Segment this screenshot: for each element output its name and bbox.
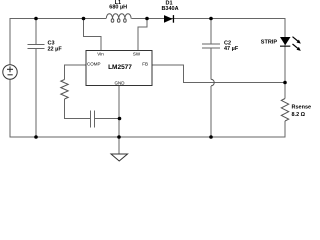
svg-text:47 µF: 47 µF bbox=[224, 46, 239, 52]
svg-text:8.2 Ω: 8.2 Ω bbox=[292, 112, 306, 118]
svg-text:STRIP: STRIP bbox=[261, 40, 278, 46]
svg-text:Rsense: Rsense bbox=[292, 105, 312, 111]
svg-text:LM2577: LM2577 bbox=[108, 64, 132, 71]
svg-text:Vin: Vin bbox=[97, 51, 104, 56]
svg-text:680 µH: 680 µH bbox=[109, 5, 127, 11]
svg-text:FB: FB bbox=[142, 61, 148, 66]
svg-text:B340A: B340A bbox=[161, 6, 178, 12]
svg-text:22 µF: 22 µF bbox=[48, 46, 63, 52]
svg-text:GND: GND bbox=[115, 80, 126, 85]
svg-text:SW: SW bbox=[133, 52, 141, 57]
svg-text:COMP: COMP bbox=[87, 62, 101, 67]
